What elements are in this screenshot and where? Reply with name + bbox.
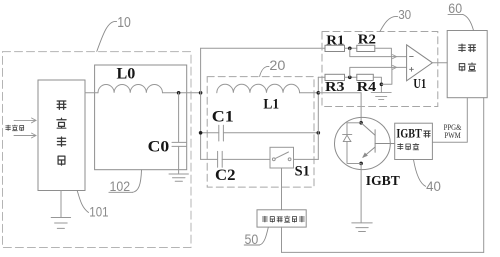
label 30: [380, 8, 411, 31]
freewheel diode: [343, 123, 362, 164]
wire C0 to ground: [178, 146, 180, 173]
switch S1 box: [270, 147, 294, 168]
switch control unit box 开关控制单元: [257, 210, 306, 227]
resistor R3: [325, 74, 345, 80]
wire main bus to IGBT: [318, 92, 361, 94]
svg-text:C1: C1: [212, 108, 234, 125]
node collector: [359, 121, 363, 125]
label 40: [414, 160, 441, 195]
svg-text:101: 101: [89, 204, 108, 220]
svg-text:IGBT: IGBT: [366, 174, 401, 189]
wire IGBT collector drop: [360, 93, 362, 123]
plus sign: [410, 67, 414, 71]
node ground tap: [380, 83, 384, 87]
wire noninverting input: [350, 67, 407, 77]
wire C2 to S1: [222, 158, 270, 160]
svg-text:60: 60: [448, 1, 462, 16]
svg-text:R2: R2: [358, 32, 376, 47]
IGBT circle: [335, 117, 391, 169]
svg-text:S1: S1: [295, 164, 310, 180]
wire C2 row left: [201, 158, 218, 160]
resistor R4: [357, 74, 374, 80]
wire R3 tap from bus: [318, 76, 325, 78]
svg-text:C2: C2: [215, 167, 236, 184]
svg-text:20: 20: [269, 57, 285, 73]
wire R4 to ground tap: [373, 77, 381, 92]
svg-text:U1: U1: [413, 77, 426, 92]
label PPG PWM: [444, 123, 462, 140]
AC input arrow top: [14, 118, 36, 123]
resistor R2: [357, 45, 375, 51]
label 交流电: [6, 125, 24, 131]
node emitter: [359, 162, 363, 166]
resistor R1: [325, 45, 345, 51]
wire bottom bus: [282, 251, 484, 253]
svg-text:L1: L1: [263, 96, 279, 112]
wire rectifier output: [85, 92, 98, 94]
wire L1 to right node: [300, 92, 319, 94]
op-amp U1: [407, 45, 433, 81]
svg-text:PWM: PWM: [444, 131, 460, 140]
dashed block 30 boundary: [322, 32, 438, 107]
wire C0 top: [178, 93, 180, 142]
node dot main bus right: [317, 91, 321, 95]
ground below IGBT: [352, 223, 372, 232]
label 20: [260, 57, 286, 76]
wire L0 to node: [163, 92, 201, 94]
label 50: [244, 227, 268, 247]
svg-text:102: 102: [110, 178, 131, 194]
capacitor C2: [218, 151, 223, 167]
svg-text:R3: R3: [325, 80, 345, 95]
node R3R4 junction: [348, 76, 352, 80]
wire R2 right to minus drop: [375, 48, 392, 56]
wire control unit down: [281, 227, 283, 252]
wire S1 to right bus: [294, 158, 319, 160]
IGBT driver unit box 40 IGBT驱动单元: [395, 123, 433, 159]
node R1R2 junction: [348, 47, 352, 51]
wire R1 to R2: [345, 47, 357, 49]
svg-text:R1: R1: [326, 34, 344, 49]
arrowhead plus input: [393, 65, 397, 69]
AC input arrow bottom: [14, 133, 36, 138]
svg-text:10: 10: [117, 15, 131, 31]
svg-text:30: 30: [398, 8, 411, 22]
arrowhead minus input: [393, 55, 397, 59]
wire emitter to ground: [360, 163, 362, 222]
inductor L0: [98, 85, 162, 93]
svg-text:C0: C0: [148, 138, 170, 155]
dashed block 20 boundary: [207, 77, 314, 188]
capacitor C1: [219, 125, 224, 141]
filter block box 102: [95, 65, 187, 170]
rectifier bridge box 整流桥堆: [38, 80, 85, 191]
label 10: [97, 15, 131, 51]
svg-text:L0: L0: [117, 65, 136, 82]
dashed block 10 boundary: [3, 52, 192, 248]
wire right riser to main unit: [483, 98, 485, 253]
wire main unit to IGBT driver: [432, 98, 467, 143]
label 101: [77, 191, 108, 220]
wire right sub-bus: [317, 77, 319, 159]
svg-text:IGBT: IGBT: [396, 126, 422, 141]
svg-text:40: 40: [426, 179, 441, 194]
label 60: [448, 1, 474, 30]
ground below R4: [371, 93, 391, 100]
ground below C0: [169, 174, 188, 181]
node dot C0 tap: [177, 91, 181, 95]
wire C1 row left: [201, 132, 219, 134]
label 102: [109, 170, 142, 194]
wire vertical bus x=200.6: [200, 48, 202, 159]
node dot C1 left: [199, 131, 203, 135]
wire U1 output: [432, 62, 447, 64]
wire vertical tie at op-amp inputs: [391, 57, 393, 68]
wire inverting input: [350, 48, 407, 56]
wire C1 row right: [223, 132, 318, 134]
ground 101 symbol: [51, 218, 70, 229]
transistor Q1 inside IGBT: [362, 123, 395, 157]
wire S1 control drop: [281, 168, 283, 210]
node dot main bus left: [199, 91, 203, 95]
capacitor C0: [172, 142, 186, 146]
inductor L1: [217, 84, 300, 93]
minus sign: [410, 56, 414, 58]
wire plus input ground drop: [381, 67, 392, 84]
wire rectifier to ground: [60, 191, 62, 218]
node dot C1 right: [317, 131, 321, 135]
wire top feed to R1: [201, 47, 325, 49]
wire R3 to R4: [345, 76, 357, 78]
main control unit box 60 主控单元: [447, 31, 487, 98]
